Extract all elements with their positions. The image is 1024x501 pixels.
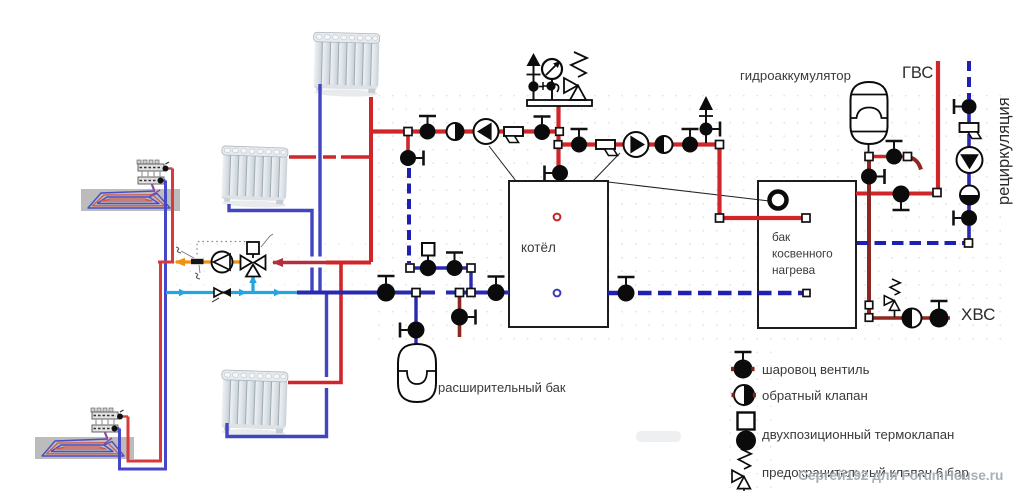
legend check valve symbol [734,385,754,405]
ball valve row A 1 [419,116,436,140]
legend ball valve nubs [731,367,734,371]
ХВС safety relief valve [884,279,900,310]
recirc ball valve top [954,99,977,114]
junction node B1 [554,141,562,149]
return row ball valve [377,276,395,302]
bypass dashed blue vertical [407,168,411,263]
orange arrowhead [174,258,185,266]
tank heating coil port [770,192,787,209]
hydro tank node [865,153,873,161]
svg-text:бак: бак [772,230,791,244]
three-way mixing valve [241,242,266,277]
manifold collector 1 [137,160,164,184]
boiler outlet ball valve right [618,277,635,302]
legend safety valve symbol [732,449,751,489]
ball valve row B 2 [682,129,699,153]
left return blue vertical (collector1 to collector2) [120,181,166,470]
junction node tank feed [716,214,724,222]
radiator supply branch red row to mixing [326,261,371,265]
cyan mixed return row [166,291,297,294]
circulation pump P1 [474,119,499,144]
ГВС red horizontal from tank [856,192,934,196]
expansion tank vessel [398,344,436,402]
hydro tank red stub [872,155,904,159]
sensor squiggle 2 [195,273,200,279]
recirc corner node [965,239,973,247]
makeup maroon drop [458,295,462,337]
ХВС maroon horizontal [869,316,950,320]
svg-text:рециркуляция: рециркуляция [995,97,1013,205]
cold feed ball valve [861,169,885,185]
svg-text:гидроаккумулятор: гидроаккумулятор [740,68,851,83]
expansion tank ball valve [400,322,425,339]
recirculation pump [957,147,983,173]
bypass ball valve [446,253,463,277]
boiler return ball valve left [488,277,505,302]
collector 2 supply stub [118,415,128,417]
ball valve under air vent [700,122,721,137]
svg-text:расширительный бак: расширительный бак [438,380,566,395]
grid dots background [372,92,1002,348]
svg-text:косвенного: косвенного [772,247,833,261]
orange mixing output pipe [176,260,242,263]
boiler return dark blue row [297,291,509,295]
leader line pump1 to boiler [489,146,516,181]
cold feed node 1 [865,301,873,309]
hydroaccumulator vessel [851,82,888,153]
boiler supply ball valve [545,165,569,181]
bypass branch node [406,264,414,272]
svg-text:шаровоц вентиль: шаровоц вентиль [762,362,870,377]
recirculation solid stubs [967,113,971,240]
collector 1 supply mini valve [163,166,169,172]
svg-text:нагрева: нагрева [772,263,816,277]
strainer filter row A [504,127,523,143]
makeup tee node [456,289,464,297]
bypass tee node [467,289,475,297]
collector 2 return stub [112,427,120,429]
radiator 1 return blue vertical [318,84,321,291]
ХВС ball valve [930,301,949,328]
collector 1 return stub [158,179,166,181]
makeup ball valve [451,309,476,326]
floor heating slab 2 [35,437,134,459]
legend two-position thermovalve symbol [736,413,756,451]
left supply riser red (collector1 down) [158,169,173,263]
radiator 2 [220,146,288,209]
floor heating coil 1 [88,190,170,208]
floor heating slab 1 [81,189,180,211]
ГВС ball valve [893,186,910,211]
sensor leader 1 [181,251,194,258]
radiator 3 supply red tee [288,263,341,383]
orange line damper mark [191,259,204,264]
svg-text:Сергей192 для ForumHouse.ru: Сергей192 для ForumHouse.ru [798,468,1003,483]
ball valve row A 2 [534,117,551,141]
legend check valve nubs [732,393,735,397]
pressure gauge [542,59,562,100]
radiator 1 supply red riser [369,97,373,262]
actuator leader [261,234,273,247]
tank cold inlet node [803,290,810,297]
recirc ball valve bottom [954,210,978,226]
collector 2 return mini valve [112,426,118,432]
junction node A2 [556,128,564,136]
two-position thermovalve [420,243,436,276]
radiator 3 return blue pipe [227,295,327,437]
safety relief valve on manifold [564,52,587,100]
floor heating coil 2 [42,438,124,456]
expansion tank blue stub [414,295,417,345]
red stub under junction A [406,134,410,152]
boiler supply indicator [554,214,561,221]
boiler котёл body [509,181,608,327]
mixing crimson pipe [273,261,326,265]
svg-text:ХВС: ХВС [961,305,995,324]
automatic air vent [699,96,713,130]
collector 2 purple drop [105,432,107,439]
supply header red row A [369,129,559,133]
leader line boiler to tank coil [608,182,769,201]
hydro flex maroon curl [909,158,921,170]
collector 1 purple drop [152,184,154,191]
air vent on manifold [527,53,545,100]
indirect tank body [758,181,856,328]
safety group manifold bar [527,100,592,106]
recirc check valve [960,186,979,205]
svg-text:котёл: котёл [521,240,556,255]
bypass corner node [467,264,475,272]
circulation pump P2 [624,132,649,157]
collector 1 supply stub [164,167,173,169]
ball valve bypass [400,150,424,166]
crimson arrowhead [272,258,283,267]
ball valve row B 1 [571,129,588,153]
tank coil inlet node [802,214,810,222]
expansion tee node [412,289,420,297]
thermostatic sensor wire dotted [197,242,250,256]
faint smudge [636,431,681,442]
balancing valve cyan row [212,288,231,302]
recirculation dashed horizontal [857,241,964,245]
radiator 2 supply red dashed [289,155,336,159]
sensor leader 2 [199,265,200,273]
safety manifold red stem [556,106,560,168]
legend ball valve symbol [734,352,753,379]
radiator 1 [312,32,380,97]
manifold collector 2 [91,408,118,432]
junction node B2 [716,141,724,149]
svg-text:ГВС: ГВС [902,64,933,82]
svg-text:обратный клапан: обратный клапан [762,388,868,403]
maroon cold feed vertical [867,160,871,318]
ГВС riser node [933,189,941,197]
radiator 3 [220,370,288,438]
left supply drop red to collector 2 [128,262,161,461]
boiler feed red row B [559,145,807,219]
leader line pump2 to boiler [593,153,620,181]
radiator 2 supply red solid [341,155,371,159]
ГВС red riser [936,61,940,190]
mixing pump [212,252,233,273]
recirculation dashed riser top [967,61,971,99]
check valve row B [656,136,673,153]
boiler return indicator [554,290,561,297]
junction node A1 [404,128,412,136]
hydro ball valve [886,141,903,165]
svg-text:двухпозиционный термоклапан: двухпозиционный термоклапан [762,427,954,442]
cyan branch up to valve [251,277,254,293]
check valve row A [447,123,464,140]
radiator 2 return blue pipe [229,204,312,291]
strainer filter row B [596,140,618,156]
collector 2 supply mini valve [117,414,123,420]
thermovalve branch blue [413,268,471,290]
cyan arrows [179,289,187,297]
hydro outlet node [904,153,912,161]
cold feed node 2 [865,314,873,322]
sensor squiggle 1 [176,247,181,253]
ХВС check valve [903,309,922,328]
recirc strainer [960,123,982,139]
boiler return dashed main to tank [608,291,634,296]
collector 1 return mini valve [158,178,164,184]
